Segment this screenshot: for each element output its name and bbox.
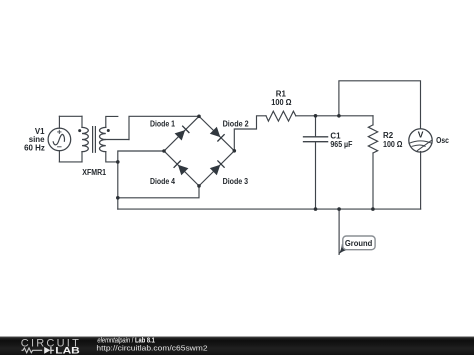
diode D3 arrow xyxy=(210,165,221,175)
wire: ground stub xyxy=(338,209,340,254)
svg-text:Ground: Ground xyxy=(345,239,372,248)
core xyxy=(93,127,96,153)
logo schematic glyph: resistor xyxy=(22,348,43,353)
diode D1 arrow xyxy=(174,126,225,176)
svg-text:60 Hz: 60 Hz xyxy=(24,144,45,153)
secondary top lead (open stub) xyxy=(106,116,118,127)
svg-text:Diode 4: Diode 4 xyxy=(150,177,176,186)
resistor R1 xyxy=(266,111,296,121)
wire: bridge right corner to R1 xyxy=(234,116,266,151)
wire: riser to top rail and osc xyxy=(339,81,421,129)
voltage source V1 xyxy=(48,128,71,151)
diode bridge edges xyxy=(164,116,234,186)
wire: V1 loop bottom rail xyxy=(59,161,82,163)
wire: V1 top lead xyxy=(58,116,60,128)
svg-text:XFMR1: XFMR1 xyxy=(82,168,106,177)
svg-text:Diode 3: Diode 3 xyxy=(223,177,249,186)
wire: C1 bottom xyxy=(315,142,317,209)
svg-text:R2: R2 xyxy=(383,131,394,140)
component labels xyxy=(24,90,449,186)
svg-text:100 Ω: 100 Ω xyxy=(271,98,291,107)
diode D4 arrow xyxy=(178,165,189,176)
wire: center tap to bridge top xyxy=(129,116,199,139)
wire: bridge bottom corner to left vertical xyxy=(118,186,199,198)
footer bar xyxy=(0,335,474,355)
svg-text:http://circuitlab.com/c65swm2: http://circuitlab.com/c65swm2 xyxy=(96,345,207,352)
wire: C1 branch top xyxy=(315,116,317,137)
svg-text:965 µF: 965 µF xyxy=(330,140,352,149)
primary bottom lead xyxy=(81,152,83,162)
junction dots xyxy=(78,114,375,211)
ground flag xyxy=(338,236,375,255)
wire: V1 loop top rail xyxy=(59,115,82,117)
svg-text:LAB: LAB xyxy=(55,346,80,355)
transformer XFMR1 xyxy=(82,116,129,162)
svg-text:Diode 2: Diode 2 xyxy=(223,119,250,128)
wire: bridge left corner to secondary bottom node xyxy=(118,151,164,162)
capacitor C1 xyxy=(304,137,328,142)
wire: bottom rail xyxy=(118,208,421,210)
wire: R2 top lead xyxy=(372,116,374,125)
resistor R2 xyxy=(368,125,377,153)
transformer polarity dots xyxy=(78,129,81,132)
wire: secondary bottom node down xyxy=(117,162,119,198)
wire: V1 bottom lead xyxy=(58,151,60,162)
secondary coil xyxy=(99,127,105,151)
wire: R2 bottom lead xyxy=(372,153,374,209)
primary coil xyxy=(82,127,88,151)
wire: R1 to R2 top node xyxy=(296,115,373,117)
primary top lead xyxy=(81,116,83,127)
svg-text:Osc: Osc xyxy=(436,136,449,145)
wire: Osc bottom lead xyxy=(420,152,422,210)
secondary center tap lead xyxy=(106,139,129,141)
logo schematic glyph: diode xyxy=(44,347,50,354)
wire: left vertical to bottom rail xyxy=(117,198,119,209)
svg-text:Diode 1: Diode 1 xyxy=(150,119,176,128)
svg-text:elemntalpain / Lab 8.1: elemntalpain / Lab 8.1 xyxy=(97,335,155,344)
oscilloscope / voltmeter Osc xyxy=(409,129,432,152)
svg-text:V: V xyxy=(418,129,424,139)
svg-text:100 Ω: 100 Ω xyxy=(383,140,403,149)
secondary bottom lead xyxy=(106,152,118,162)
diode D2 arrow xyxy=(210,127,221,137)
svg-text:C1: C1 xyxy=(330,131,341,140)
